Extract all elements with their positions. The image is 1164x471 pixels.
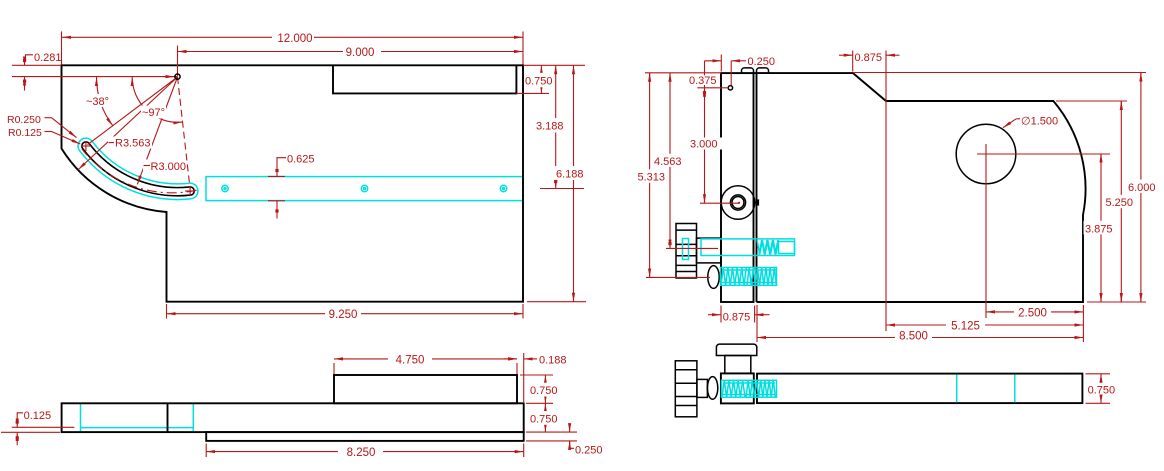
svg-text:R3.000: R3.000 xyxy=(151,161,186,173)
svg-text:2.500: 2.500 xyxy=(1018,308,1047,320)
svg-text:∅1.500: ∅1.500 xyxy=(1021,115,1058,127)
svg-text:12.000: 12.000 xyxy=(277,33,312,45)
svg-text:0.375: 0.375 xyxy=(689,75,717,87)
svg-text:3.875: 3.875 xyxy=(1085,223,1113,235)
svg-text:0.125: 0.125 xyxy=(24,410,52,422)
svg-text:5.313: 5.313 xyxy=(638,172,666,184)
svg-text:0.750: 0.750 xyxy=(1088,384,1116,396)
svg-text:0.875: 0.875 xyxy=(723,311,751,323)
svg-text:8.500: 8.500 xyxy=(899,331,928,343)
svg-text:0.875: 0.875 xyxy=(855,52,883,64)
svg-text:0.281: 0.281 xyxy=(34,52,62,64)
svg-text:9.000: 9.000 xyxy=(346,47,375,59)
svg-text:0.750: 0.750 xyxy=(530,385,558,397)
svg-text:3.188: 3.188 xyxy=(536,121,564,133)
svg-text:5.125: 5.125 xyxy=(951,321,980,333)
svg-text:0.625: 0.625 xyxy=(287,154,315,166)
svg-text:0.188: 0.188 xyxy=(539,355,567,367)
svg-text:6.000: 6.000 xyxy=(1128,182,1156,194)
svg-text:0.750: 0.750 xyxy=(530,413,558,425)
svg-text:4.563: 4.563 xyxy=(654,156,682,168)
svg-text:6.188: 6.188 xyxy=(556,168,584,180)
svg-text:8.250: 8.250 xyxy=(347,447,376,459)
svg-text:0.250: 0.250 xyxy=(575,444,603,456)
svg-text:3.000: 3.000 xyxy=(690,139,718,151)
svg-text:0.250: 0.250 xyxy=(748,56,776,68)
svg-text:~38°: ~38° xyxy=(86,96,109,108)
svg-text:5.250: 5.250 xyxy=(1106,197,1134,209)
svg-text:0.750: 0.750 xyxy=(525,75,553,87)
svg-text:4.750: 4.750 xyxy=(396,354,425,366)
svg-text:R0.250: R0.250 xyxy=(7,114,41,126)
svg-text:R3.563: R3.563 xyxy=(115,138,150,150)
svg-text:~97°: ~97° xyxy=(142,107,165,119)
svg-text:R0.125: R0.125 xyxy=(8,127,42,139)
svg-text:9.250: 9.250 xyxy=(329,309,358,321)
